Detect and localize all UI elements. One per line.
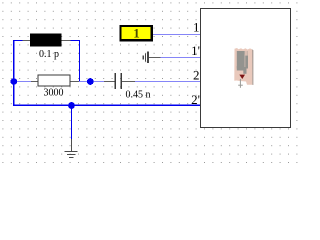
wire: row 1' from rotated ground to device box pin 1' [161, 57, 201, 59]
wire: row 2 from resistor right lead to C2 [80, 81, 105, 83]
wire: left rail with top stub and bottom row to device box pin 2' [14, 41, 201, 106]
svg-text:2: 2 [193, 68, 200, 83]
svg-text:2': 2' [191, 92, 200, 107]
device box U1 (subcircuit with photo) [200, 9, 290, 128]
capacitor C2 0.45n (plates with leads) [104, 73, 135, 89]
ground G1 (bottom) [64, 139, 77, 158]
node junction J1 on left rail row 2 [10, 78, 17, 85]
wire: ground drop below bottom-row junction [71, 106, 73, 140]
photo: pink crystal card inside U1 [234, 48, 253, 85]
photo: lead stem with cross below crystal card [238, 79, 243, 88]
node junction J2 on row 2 at C2 terminal [87, 78, 94, 85]
wire: C1 right lead corner down to row 2 [71, 41, 80, 82]
svg-text:3000: 3000 [44, 88, 64, 99]
svg-text:1: 1 [133, 26, 140, 41]
photo: gray electrode shape on crystal card [237, 51, 248, 74]
svg-text:1': 1' [191, 43, 200, 58]
wire: row 2 from C2 to device box pin 2 [135, 81, 200, 83]
wire: row 1 from yellow port box to device box pin 1 [153, 34, 201, 36]
port number box 1 (yellow) [120, 26, 151, 41]
node junction J3 on bottom row at ground drop [68, 102, 75, 109]
capacitor C1 0.1p (black body with leads) [23, 33, 71, 46]
svg-text:1: 1 [193, 19, 200, 34]
wire: row 2 from rail to resistor left lead [14, 81, 32, 83]
resistor R1 3000 (white body with leads) [31, 75, 79, 86]
photo: dark red marker on crystal card [239, 75, 245, 79]
svg-text:0.1 p: 0.1 p [39, 49, 59, 60]
svg-text:0.45 n: 0.45 n [126, 90, 151, 101]
ground G2 (rotated, on row 1') [143, 52, 160, 64]
